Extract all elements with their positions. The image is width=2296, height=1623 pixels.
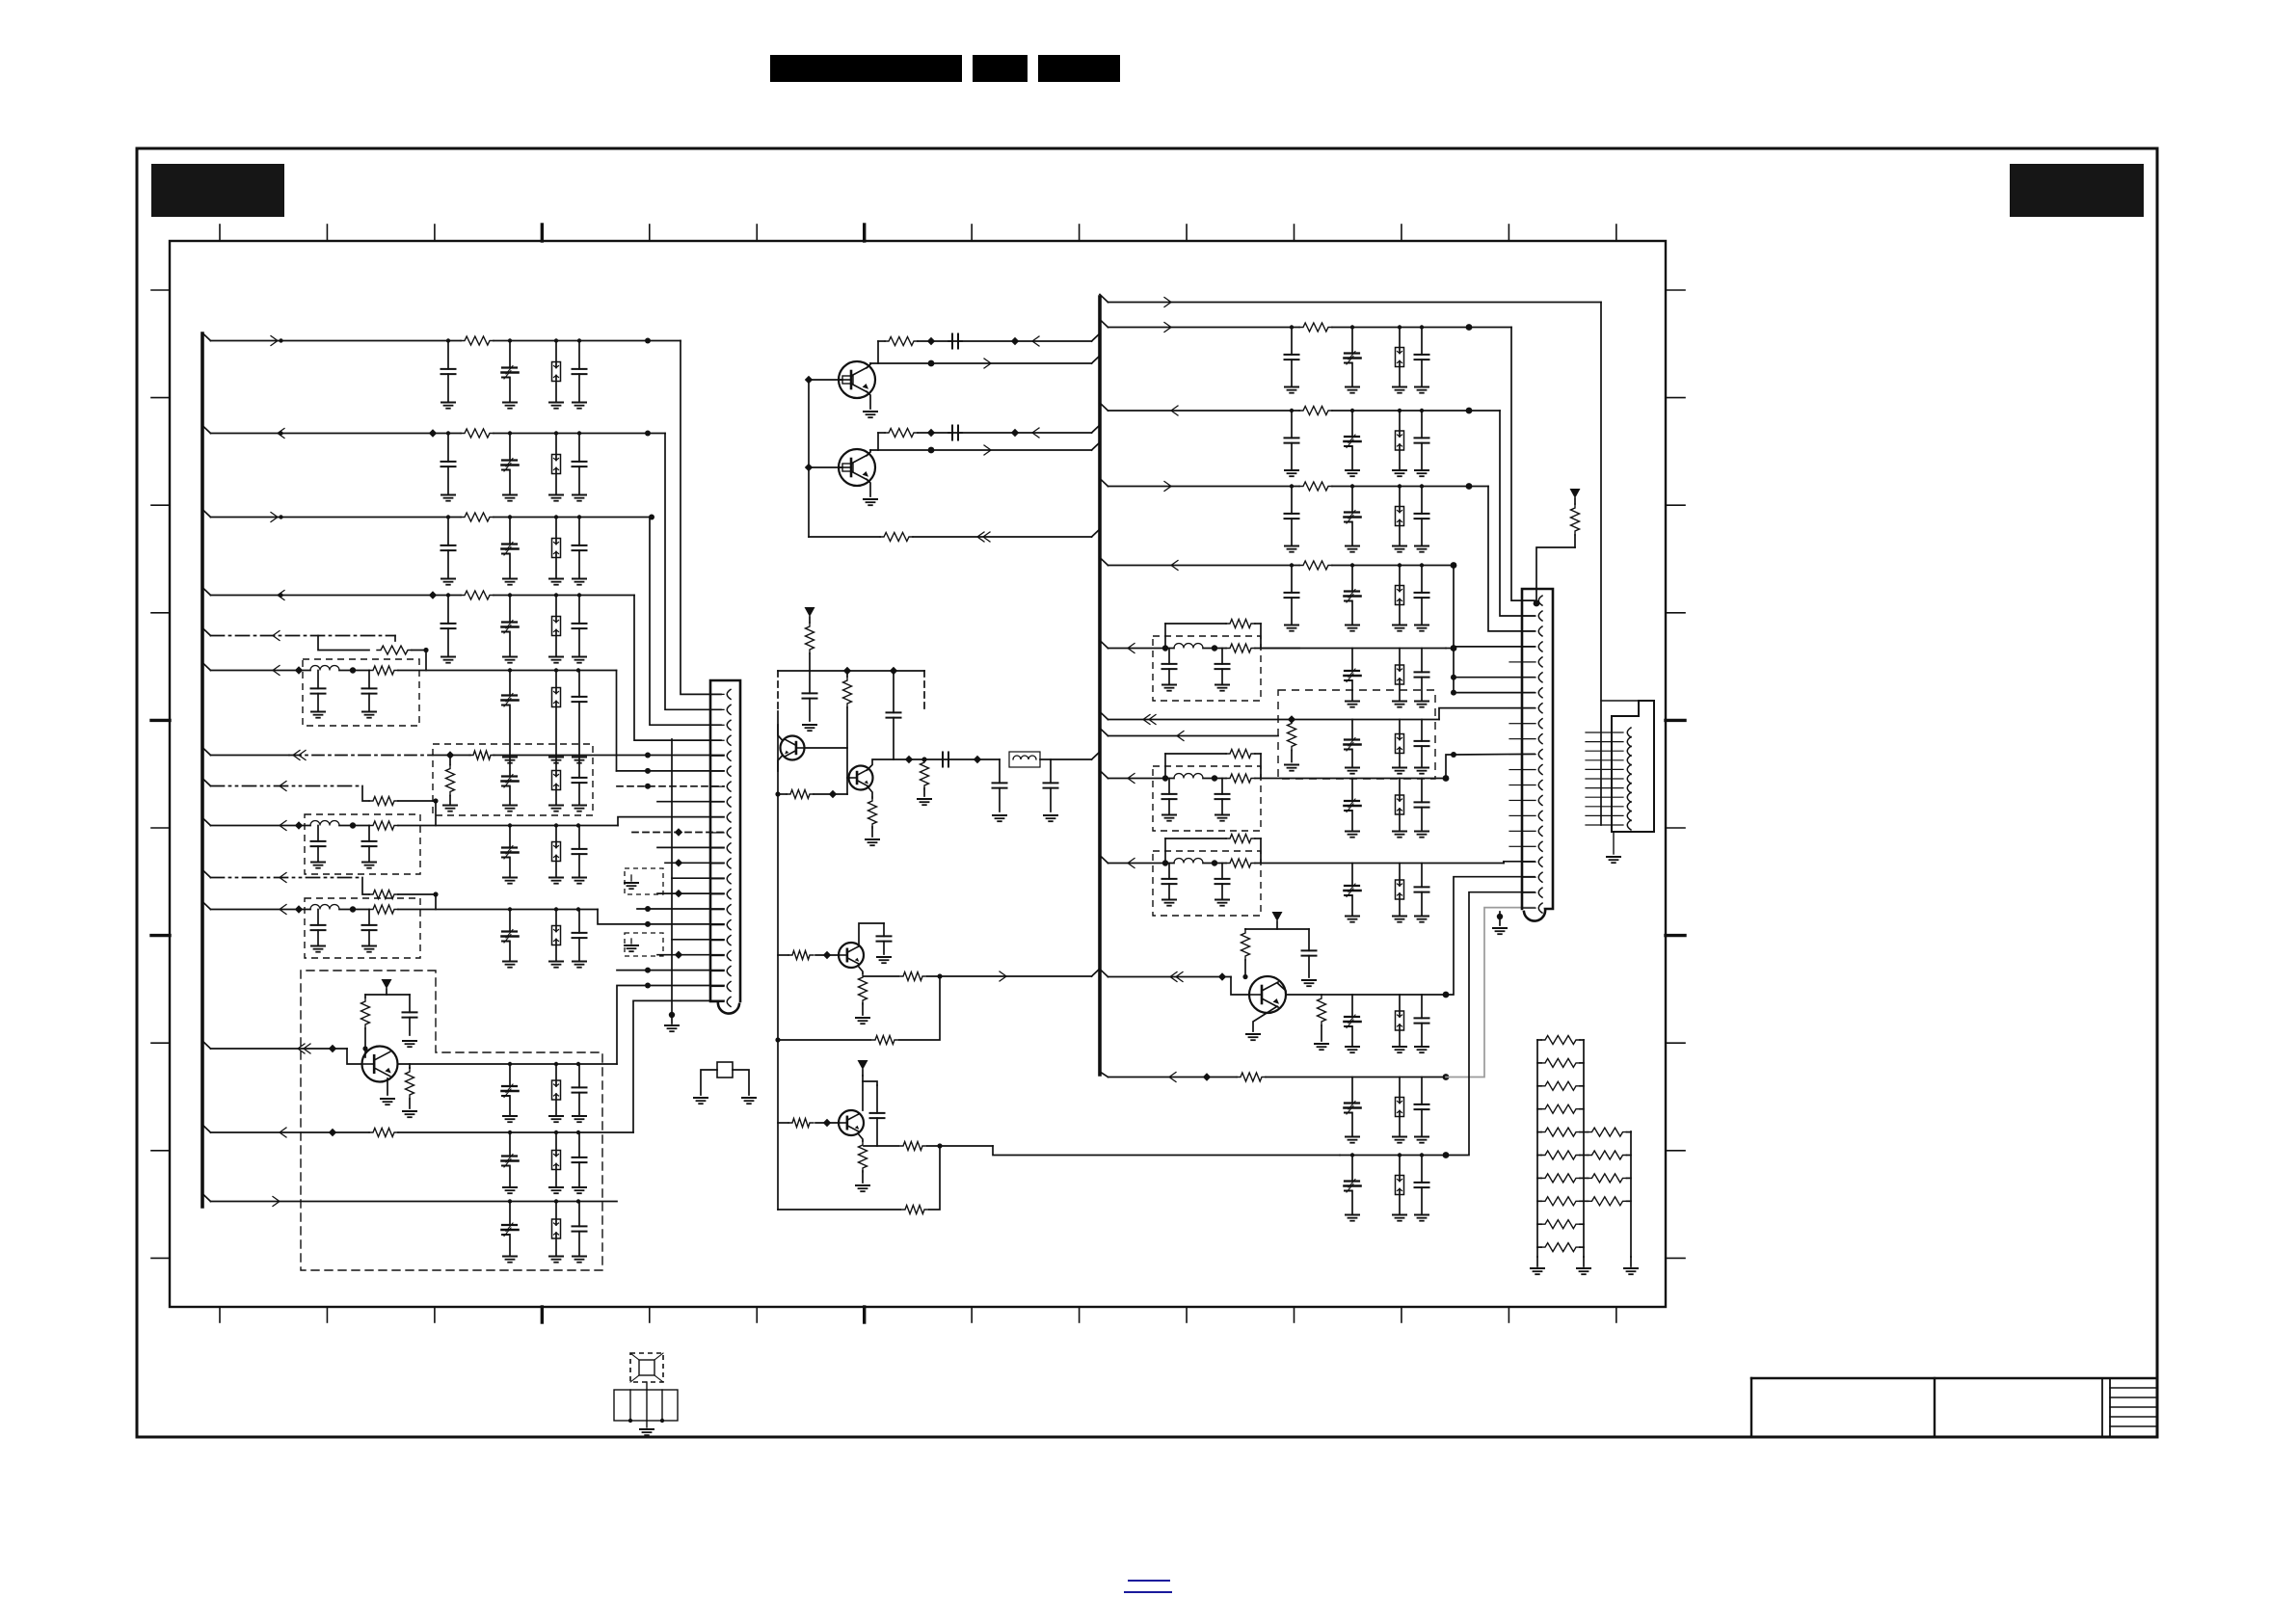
connector CN2 outline xyxy=(1522,589,1553,921)
connector CN1 pins xyxy=(710,689,731,1006)
suppressor Zz4 xyxy=(1396,566,1404,625)
ground R14 xyxy=(403,1111,416,1117)
resistor R11 xyxy=(369,891,398,899)
node RL3 junction xyxy=(1466,408,1473,414)
wire line L1 xyxy=(211,340,681,342)
ground C46 xyxy=(1346,702,1359,707)
capacitor C41 xyxy=(877,923,892,954)
ground R8 xyxy=(443,806,457,811)
wire bus exit chamfer RL8 xyxy=(1100,729,1108,736)
diamond Q8 out xyxy=(905,756,913,763)
wire Q6 collector line xyxy=(1277,983,1446,995)
ground C22 xyxy=(573,878,586,884)
wire supply rail Q5 xyxy=(365,994,410,996)
shield stub box A xyxy=(625,868,663,894)
resistor RN4 xyxy=(1537,1104,1584,1113)
ground C49 xyxy=(1415,768,1428,774)
wire L6 drop xyxy=(616,671,618,771)
ground C25 xyxy=(503,962,517,968)
page footer links xyxy=(1125,1581,1171,1592)
resistor R6 xyxy=(369,666,398,675)
capacitor C25 (feedthrough) xyxy=(502,910,519,962)
node fb left xyxy=(775,1037,780,1042)
ground C12 xyxy=(573,657,586,663)
capacitor C48 (feedthrough) xyxy=(1345,720,1361,768)
wire line L7 xyxy=(211,755,725,757)
diamond junction L12 xyxy=(329,1045,336,1052)
ground Q6 xyxy=(1246,1034,1260,1040)
arrow Q2 out xyxy=(984,445,991,455)
wire stub pin11 xyxy=(657,846,724,848)
wire stub pin6 xyxy=(617,768,725,774)
resistor R29 xyxy=(859,1141,868,1183)
wire RL9 through xyxy=(1203,778,1446,780)
ground ladder a xyxy=(1531,1257,1544,1274)
arrow on L6 xyxy=(273,666,280,676)
wire bus exit chamfer RL3 xyxy=(1100,403,1108,411)
node L6 right xyxy=(508,668,580,672)
wire bus exit chamfer L7 xyxy=(202,748,211,756)
inner drawing frame xyxy=(170,241,1666,1307)
arrow on L1 xyxy=(271,336,283,346)
diamond RC Q2 b xyxy=(1011,429,1019,437)
node L8 stub xyxy=(645,784,651,789)
base resistor Q1 xyxy=(842,376,853,384)
wire RL10 to pin xyxy=(1504,862,1535,864)
capacitor Cc11 (feedthrough) xyxy=(1345,566,1361,625)
wire line RL1 xyxy=(1108,302,1602,304)
wire Q7 emitter xyxy=(778,756,783,772)
resistor R25 xyxy=(859,973,868,1015)
wire stub pin13 xyxy=(672,877,724,879)
transistor Q8 xyxy=(849,766,873,790)
resistor Rr1 xyxy=(1299,323,1332,332)
capacitor C27 xyxy=(403,995,417,1035)
ground Z3 xyxy=(549,579,563,585)
wire line L4 xyxy=(211,595,635,597)
IC U1 leads xyxy=(630,1353,663,1382)
capacitor C42 xyxy=(870,1085,885,1146)
arrow on L13 xyxy=(280,1128,286,1137)
node RL10 entry xyxy=(1162,860,1168,865)
inductor FL1 xyxy=(310,666,339,671)
resistor RM3 xyxy=(1584,1174,1631,1183)
capacitor C9 xyxy=(573,518,587,579)
ground C26 xyxy=(573,962,586,968)
wire L8 pin stub xyxy=(617,785,724,787)
suppressor Z17 xyxy=(1396,1078,1404,1137)
arrow on RL7 xyxy=(1143,715,1156,725)
wire shield drop left (dashed) xyxy=(777,671,779,711)
wire RL5 pin stub a xyxy=(1454,677,1535,678)
capacitor C40 xyxy=(1044,759,1058,811)
crystal X1 xyxy=(717,1062,733,1078)
wire RC line Q2 xyxy=(878,425,1100,433)
capacitor C51 xyxy=(1215,779,1230,815)
wire RL6 mid xyxy=(1261,648,1446,650)
wire L2 drop to connector xyxy=(665,434,721,710)
wire bus exit chamfer L13 xyxy=(202,1125,211,1132)
resistor R39 jumper xyxy=(1165,835,1261,843)
wire bus exit chamfer RL9 xyxy=(1100,771,1108,779)
arrow return xyxy=(977,532,990,542)
node Q3 fb xyxy=(937,973,942,978)
wire L10 jog xyxy=(362,878,369,895)
capacitor C35 xyxy=(948,426,962,440)
supply arrow V1 xyxy=(382,979,392,995)
ground C53 xyxy=(1415,832,1428,838)
capacitor Cc4 xyxy=(1285,411,1299,470)
node L4 taps xyxy=(446,593,581,597)
transistor Q6 xyxy=(1249,976,1286,1013)
node Q8 out xyxy=(921,757,926,761)
diamond junction L2 xyxy=(429,429,437,437)
wire RL5 pin stub b xyxy=(1454,692,1535,694)
wire L1 drop to connector xyxy=(681,341,721,695)
resistor RN1 xyxy=(1537,1036,1584,1045)
wire RL2 drop xyxy=(1511,328,1535,601)
resistor R9 xyxy=(369,797,398,806)
wire Q4 output xyxy=(864,1145,993,1147)
wire CN2 drain xyxy=(1497,912,1503,925)
capacitor C15 (feedthrough) xyxy=(502,671,519,758)
capacitor C8 (feedthrough) xyxy=(502,518,519,579)
ground Z15 xyxy=(1393,917,1406,922)
suppressor Z8 xyxy=(552,910,561,962)
ground Q4 emitter xyxy=(856,1185,869,1191)
arrow on RL4 xyxy=(1164,482,1171,492)
capacitor C32 (feedthrough) xyxy=(502,1202,519,1257)
capacitor C62 xyxy=(1415,1078,1429,1137)
resistor RN10 xyxy=(1537,1243,1584,1252)
wire Q3 feedback xyxy=(778,976,940,1040)
wire bus exit chamfer RL2 xyxy=(1100,320,1108,328)
filter module box FL3 xyxy=(305,898,420,958)
wire line L9 xyxy=(211,825,311,827)
capacitor Cc12 xyxy=(1415,566,1429,625)
wire RL6 through xyxy=(1203,648,1299,650)
wire RL9 pin stub xyxy=(1454,753,1535,756)
capacitor C33 xyxy=(573,1202,587,1257)
ground C10 xyxy=(441,657,455,663)
wire stub pin9 xyxy=(657,801,724,803)
left signal bus xyxy=(200,333,204,1207)
capacitor C57 xyxy=(1415,864,1429,917)
wire line L10 (screened) xyxy=(211,877,363,879)
ground C30 xyxy=(503,1187,517,1193)
arrow on RL3 xyxy=(1171,406,1178,415)
inductor FL4 xyxy=(1009,752,1040,767)
resistor R13 xyxy=(361,995,370,1049)
ground xyxy=(1346,387,1359,393)
node RL5 junction xyxy=(1451,562,1457,569)
node RL6 out xyxy=(1451,645,1457,652)
wire bus exit chamfer RL10 xyxy=(1100,856,1108,864)
diamond R21 xyxy=(829,790,837,798)
resistor RN7 xyxy=(1537,1174,1584,1183)
ground Z11 xyxy=(549,1257,563,1263)
inductor FL3 xyxy=(310,905,339,910)
resistor R19 xyxy=(806,623,814,671)
wire line L12 base feed xyxy=(211,1048,348,1050)
suppressor Z15 xyxy=(1396,864,1404,917)
diamond RC Q2 a xyxy=(927,429,935,437)
node RL9 pin xyxy=(1451,752,1456,758)
wire RL3 drop xyxy=(1500,411,1535,616)
wire L5 end jog xyxy=(394,636,396,642)
ground C18 xyxy=(573,806,586,811)
node L11 stub xyxy=(645,921,651,927)
suppressor Z5 xyxy=(552,671,561,758)
capacitor C1 xyxy=(441,341,456,403)
suppressor Z16 xyxy=(1396,995,1404,1047)
inductor FL7 xyxy=(1174,859,1203,864)
wire RL12 riser xyxy=(1446,908,1535,1078)
wire bus exit chamfer L1 xyxy=(202,333,211,341)
resistor R35 xyxy=(1288,720,1296,762)
wire R11 to node xyxy=(398,893,436,895)
suppressor Zz3 xyxy=(1396,487,1404,546)
wire RL6 to pin xyxy=(1446,647,1535,649)
node L14 marks xyxy=(508,1199,580,1203)
wire Q1 RC stub xyxy=(877,341,879,363)
wire jumper drops xyxy=(1165,624,1261,649)
arrow on RL1 xyxy=(1164,298,1171,307)
wire Q2 collector line xyxy=(870,442,1100,450)
ground xyxy=(1393,625,1406,631)
ground C21 xyxy=(503,878,517,884)
wire R9 to node xyxy=(398,800,436,802)
node L7 junction xyxy=(645,753,651,758)
wire RC line Q1 xyxy=(878,333,1100,341)
capacitor Cc3 xyxy=(1415,328,1429,387)
wire Q5 collector riser xyxy=(617,986,724,1065)
IC U1 pad row xyxy=(614,1390,678,1421)
arrow on RL10 xyxy=(1128,859,1135,868)
wire line L5 (screened) xyxy=(211,635,396,637)
ground C27 xyxy=(403,1041,416,1047)
wire Q7 collector xyxy=(778,725,783,741)
resistor R16 xyxy=(885,337,918,346)
ground Z6 xyxy=(549,806,563,811)
arrow on L11 xyxy=(280,905,286,915)
wire V5 rail xyxy=(1245,928,1309,930)
wire L13 riser xyxy=(633,1000,724,1132)
resistor RM2 xyxy=(1584,1151,1631,1159)
wire Q8 emitter xyxy=(868,786,872,798)
ground C23 xyxy=(311,946,325,952)
ground Z7 xyxy=(549,878,563,884)
resistor R34 jumper xyxy=(1165,620,1261,628)
ground C59 xyxy=(1346,1047,1359,1052)
ground C55 xyxy=(1215,900,1229,906)
capacitor Cc8 (feedthrough) xyxy=(1345,487,1361,546)
wire Q6 emitter xyxy=(1253,1006,1277,1031)
node RL5 pin stubs xyxy=(1451,675,1456,696)
ground C5 xyxy=(503,495,517,501)
wire bus exit chamfer L9 xyxy=(202,818,211,826)
capacitor C53 xyxy=(1415,779,1429,832)
resistor R10 xyxy=(369,821,398,830)
wire Q4 feedback xyxy=(778,1146,940,1210)
ground R23 xyxy=(918,799,931,805)
ground C4 xyxy=(441,495,455,501)
ground C6 xyxy=(573,495,586,501)
resistor R41 xyxy=(1318,995,1326,1041)
node Q1 collector xyxy=(928,360,935,367)
supply arrow V2 xyxy=(805,607,815,623)
wire Q3 top stub xyxy=(859,923,884,945)
resistor R3 xyxy=(461,513,494,521)
ground R41 xyxy=(1315,1044,1328,1050)
transistor Q3 xyxy=(839,943,864,968)
wire base return line xyxy=(809,529,1100,537)
resistor RN5 xyxy=(1537,1128,1584,1136)
resistor R21 xyxy=(778,790,847,799)
wire RL13 riser xyxy=(1446,892,1535,1156)
connector CN1 outline xyxy=(710,680,740,1014)
capacitor C46 (feedthrough) xyxy=(1345,649,1361,702)
wire bus exit chamfer L5 xyxy=(202,628,211,636)
node RL4 taps xyxy=(1290,484,1424,488)
wire bus exit chamfer RL7 xyxy=(1100,712,1108,720)
wire line RL4 xyxy=(1108,486,1489,488)
wire line RL9 xyxy=(1108,778,1175,780)
filter module box FL6 xyxy=(1153,766,1261,831)
node Q5 collector marks xyxy=(508,1062,580,1066)
ground Q5 emitter xyxy=(381,1099,394,1104)
wire bus exit chamfer L3 xyxy=(202,510,211,518)
resistor RN9 xyxy=(1537,1220,1584,1229)
capacitor C47 xyxy=(1415,649,1429,702)
wire line RL10 xyxy=(1108,863,1175,865)
ground X1 left xyxy=(694,1098,707,1104)
title bar redaction block 2 xyxy=(973,55,1028,82)
wire V3 cap stub xyxy=(863,1081,877,1085)
ground Z18 xyxy=(1393,1215,1406,1221)
ground shield B xyxy=(625,939,638,951)
resistor R1 xyxy=(461,336,494,345)
ground U1 xyxy=(640,1429,654,1435)
node RL2 taps xyxy=(1290,325,1424,329)
wire line RL5 xyxy=(1108,565,1455,567)
suppressor Z11 xyxy=(552,1202,561,1257)
ground CN3 xyxy=(1607,832,1620,863)
capacitor C4 xyxy=(441,434,456,495)
ground C28 xyxy=(503,1116,517,1122)
wire bus exit chamfer L8 xyxy=(202,779,211,786)
node L3 taps xyxy=(446,515,581,519)
ground Z17 xyxy=(1393,1137,1406,1143)
filter module box FL7 xyxy=(1153,851,1261,916)
ground xyxy=(1346,470,1359,476)
capacitor Cc6 xyxy=(1415,411,1429,470)
capacitor C36 xyxy=(803,671,817,721)
ground C3 xyxy=(573,403,586,409)
suppressor Z4 xyxy=(552,596,561,657)
capacitor Cc10 xyxy=(1285,566,1299,625)
capacitor C44 xyxy=(1215,649,1230,685)
diamond junction L9 xyxy=(295,821,303,829)
ground xyxy=(1346,546,1359,552)
ground C57 xyxy=(1415,917,1428,922)
wire bus exit chamfer L12 xyxy=(202,1041,211,1049)
wire Q2 emitter xyxy=(867,479,870,496)
ground xyxy=(1415,470,1428,476)
wire Q4 base feed xyxy=(778,1122,839,1124)
arrow on RL6 xyxy=(1128,644,1135,653)
ground C39 xyxy=(993,815,1006,821)
wire L8 jog xyxy=(362,786,369,802)
wire line RL6 xyxy=(1108,648,1175,650)
node L13 marks xyxy=(508,1131,580,1134)
transistor Q2 xyxy=(839,449,875,486)
node L10 xyxy=(433,891,438,896)
resistor RM1 xyxy=(1584,1128,1631,1136)
ground Z10 xyxy=(549,1187,563,1193)
supply arrow V3 xyxy=(858,1060,868,1076)
ground connector drain xyxy=(665,1015,679,1031)
diamond RC Q1 b xyxy=(1011,337,1019,345)
wire Q4 emitter xyxy=(858,1133,863,1141)
node L3 junction xyxy=(649,515,654,520)
arrow RL11 xyxy=(1170,972,1183,982)
ground C14 xyxy=(362,712,376,718)
ground Q1 xyxy=(864,412,877,417)
wire connector drain xyxy=(669,739,675,1018)
resistor R22 xyxy=(868,797,877,837)
wire line L2 xyxy=(211,433,666,435)
ground C64 xyxy=(1415,1215,1428,1221)
diamond junction L11 xyxy=(295,905,303,913)
wire left rail drop xyxy=(777,711,779,1040)
ground C31 xyxy=(573,1187,586,1193)
arrow on L10 xyxy=(280,873,286,883)
wire line L14 xyxy=(211,1201,618,1203)
ground xyxy=(1415,387,1428,393)
capacitor C43 xyxy=(1162,649,1177,685)
capacitor C19 xyxy=(311,826,326,863)
node RL5 taps xyxy=(1290,563,1424,567)
wire bus exit chamfer RL6 xyxy=(1100,641,1108,649)
ground ladder c xyxy=(1624,1257,1638,1274)
wire RL11 to Q6 xyxy=(1231,977,1249,996)
capacitor C34 xyxy=(948,334,962,349)
ground Z9 xyxy=(549,1116,563,1122)
wire stub pin12 xyxy=(665,859,724,866)
resistor Rr3 xyxy=(1299,482,1332,491)
wire line L13 xyxy=(211,1131,634,1133)
wire Q5 collector line xyxy=(398,1063,618,1065)
shield box right xyxy=(1278,690,1435,779)
diamond junction L4 xyxy=(429,591,437,599)
wire L9 drop xyxy=(618,817,724,826)
resistor R17 xyxy=(885,429,918,438)
node RL9 out xyxy=(1443,775,1450,782)
capacitor C6 xyxy=(573,434,587,495)
ground C48 xyxy=(1346,768,1359,774)
ground C60 xyxy=(1415,1047,1428,1052)
ground C32 xyxy=(503,1257,517,1263)
wire L6 through module xyxy=(339,670,511,672)
node L1 junction xyxy=(645,338,651,344)
transistor Q1 xyxy=(839,361,875,398)
ground C44 xyxy=(1215,685,1229,691)
ground Q2 xyxy=(864,499,877,505)
ground C63 xyxy=(1346,1215,1359,1221)
capacitor C60 xyxy=(1415,995,1429,1047)
capacitor C23 xyxy=(311,910,326,946)
